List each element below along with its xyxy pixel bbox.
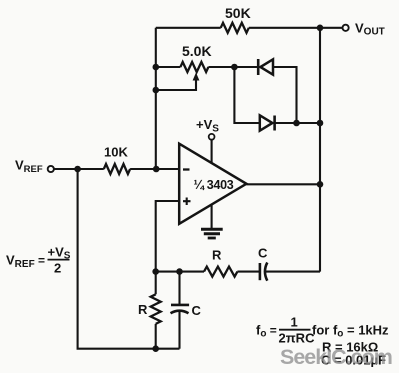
terminal +VS supply — [196, 117, 219, 163]
svg-text:2: 2 — [54, 261, 61, 276]
label frequency formula fo = 1/(2piRC) for fo = 1kHz — [256, 315, 389, 346]
svg-text:50K: 50K — [225, 5, 251, 21]
diode D1 (top, cathode left) — [258, 59, 273, 75]
node top of C branch — [176, 268, 183, 275]
svg-text:2πRC: 2πRC — [279, 331, 316, 346]
wire VREF lead — [54, 168, 104, 170]
svg-text:¼ 3403: ¼ 3403 — [194, 178, 234, 192]
wire R to C series — [237, 271, 259, 273]
wire op-amp output to rail — [246, 183, 320, 185]
wire 5.0K left lead — [156, 66, 181, 68]
wire top feedback horizontal left segment — [156, 27, 221, 29]
wire 10K to inverting input — [130, 168, 179, 170]
svg-text:5.0K: 5.0K — [182, 43, 212, 59]
node 5.0K left on rail — [153, 64, 160, 71]
diode D2 (bottom, cathode right) — [260, 115, 275, 130]
label VREF = +VS/2 — [6, 245, 71, 276]
wire D2 right lead to output rail — [275, 122, 320, 124]
op-amp U1 1/4 3403 — [179, 144, 246, 224]
resistor 50K — [221, 5, 251, 33]
wire 5.0K right lead to diode D1 — [208, 66, 258, 68]
wire top feedback horizontal right segment to output terminal — [249, 27, 342, 29]
svg-text:fo =: fo = — [256, 323, 277, 340]
resistor R series — [204, 248, 237, 277]
terminal VREF — [15, 158, 54, 176]
node VREF branch junction — [74, 166, 81, 173]
node wiper on rail — [153, 87, 160, 94]
wire vertical link between diode rows — [234, 67, 259, 123]
node A diode pair left junction — [231, 64, 238, 71]
capacitor C series — [258, 246, 268, 281]
svg-text:for fo = 1kHz: for fo = 1kHz — [312, 323, 389, 340]
node feedback rail joins inverting input — [153, 166, 160, 173]
terminal VOUT — [343, 21, 385, 38]
svg-text:1: 1 — [291, 315, 298, 330]
capacitor C branch vertical — [171, 272, 202, 349]
svg-text:10K: 10K — [104, 145, 128, 160]
node D1 drop joins D2 lead — [293, 120, 300, 127]
wire non-inverting input lead — [156, 201, 180, 272]
svg-text:R: R — [138, 302, 148, 317]
wire D1 right lead down to D2 row — [273, 67, 297, 123]
node junction top of output rail — [317, 25, 324, 32]
svg-text:SeekIC.com: SeekIC.com — [280, 345, 392, 369]
node bottom of R branch — [152, 345, 159, 352]
node plus-input rail top of R branch — [152, 268, 159, 275]
svg-text:R: R — [212, 248, 222, 263]
svg-text:C: C — [258, 246, 268, 261]
wire C series to output rail — [266, 271, 320, 273]
wire main output vertical rail — [319, 28, 321, 272]
svg-text:C: C — [192, 303, 202, 318]
potentiometer 5.0K — [156, 43, 212, 90]
wire bottom row left segment — [156, 271, 204, 273]
resistor R branch vertical — [138, 272, 161, 349]
node diode pair on output rail — [317, 120, 324, 127]
wire VREF long vertical to bottom — [78, 169, 180, 349]
resistor 10K — [104, 145, 130, 175]
wire left feedback vertical rail — [155, 28, 157, 169]
node output on rail — [317, 181, 324, 188]
ground below op-amp — [201, 205, 223, 238]
